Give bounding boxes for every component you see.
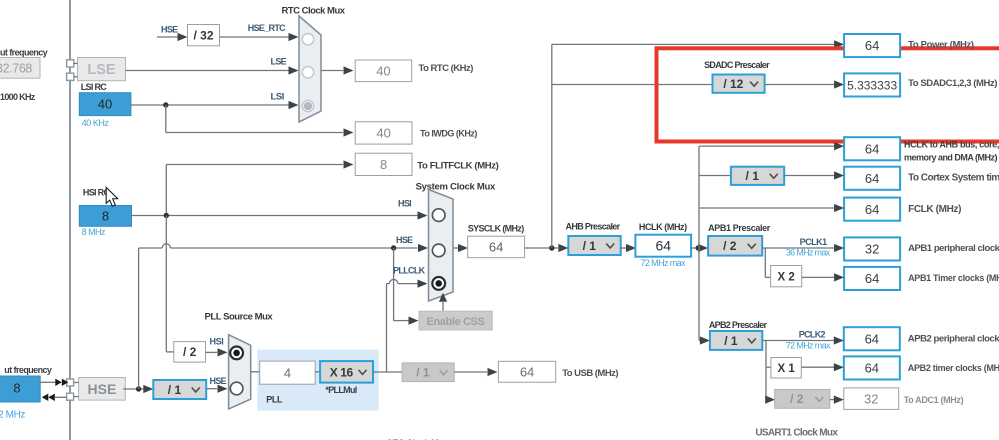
svg-text:To Power (MHz): To Power (MHz) xyxy=(908,40,974,51)
svg-text:PCLK1: PCLK1 xyxy=(800,237,827,247)
svg-text:40: 40 xyxy=(376,126,390,141)
svg-text:72 MHz max: 72 MHz max xyxy=(786,341,831,351)
svg-text:64: 64 xyxy=(865,202,879,217)
svg-text:HSE: HSE xyxy=(396,235,413,245)
svg-text:64: 64 xyxy=(865,171,879,186)
svg-text:PLLCLK: PLLCLK xyxy=(393,266,426,276)
svg-text:PLL: PLL xyxy=(266,394,283,404)
svg-text:32.768: 32.768 xyxy=(0,62,32,76)
svg-text:40 KHz: 40 KHz xyxy=(82,118,110,128)
svg-text:32 MHz: 32 MHz xyxy=(0,410,25,421)
svg-text:/ 2: / 2 xyxy=(723,239,737,253)
svg-text:64: 64 xyxy=(865,361,879,376)
svg-text:1000 KHz: 1000 KHz xyxy=(0,92,36,102)
svg-text:8: 8 xyxy=(380,157,387,172)
svg-text:64: 64 xyxy=(865,271,879,286)
svg-text:RTC Clock Mux: RTC Clock Mux xyxy=(281,6,345,17)
svg-text:64: 64 xyxy=(865,141,879,156)
svg-text:*PLLMul: *PLLMul xyxy=(325,385,356,395)
svg-text:32: 32 xyxy=(864,391,878,406)
svg-text:4: 4 xyxy=(284,365,291,380)
svg-text:HSE: HSE xyxy=(161,25,178,35)
svg-text:APB1 Prescaler: APB1 Prescaler xyxy=(708,223,771,233)
svg-text:36 MHz max: 36 MHz max xyxy=(786,247,831,257)
svg-text:HSI: HSI xyxy=(398,199,411,209)
svg-text:APB2 peripheral clocks (MHz): APB2 peripheral clocks (MHz) xyxy=(908,334,999,345)
svg-text:/ 1: / 1 xyxy=(168,383,182,397)
svg-text:LSE: LSE xyxy=(271,57,287,67)
svg-text:HCLK to AHB bus, core,: HCLK to AHB bus, core, xyxy=(904,139,999,149)
svg-text:SDADC Prescaler: SDADC Prescaler xyxy=(704,60,770,70)
svg-text:APB1 Timer clocks (MHz): APB1 Timer clocks (MHz) xyxy=(908,273,999,283)
svg-text:HSI: HSI xyxy=(210,337,224,347)
svg-text:System Clock Mux: System Clock Mux xyxy=(416,182,496,193)
svg-text:To USB (MHz): To USB (MHz) xyxy=(562,368,618,379)
svg-text:AHB Prescaler: AHB Prescaler xyxy=(566,222,621,232)
svg-text:LSI RC: LSI RC xyxy=(81,82,108,92)
svg-text:SYSCLK (MHz): SYSCLK (MHz) xyxy=(468,223,525,233)
svg-text:Enable CSS: Enable CSS xyxy=(427,316,485,328)
svg-text:40: 40 xyxy=(98,97,112,112)
svg-text:To SDADC1,2,3 (MHz): To SDADC1,2,3 (MHz) xyxy=(908,78,997,89)
svg-text:PLL Source Mux: PLL Source Mux xyxy=(205,312,274,323)
svg-text:X 16: X 16 xyxy=(330,365,354,379)
svg-text:HCLK (MHz): HCLK (MHz) xyxy=(639,222,687,232)
svg-text:To RTC (KHz): To RTC (KHz) xyxy=(419,63,474,74)
svg-text:ut frequency: ut frequency xyxy=(0,47,48,57)
svg-text:8: 8 xyxy=(13,381,20,396)
svg-text:X 1: X 1 xyxy=(777,363,795,375)
svg-text:64: 64 xyxy=(655,238,671,254)
svg-text:To FLITFCLK (MHz): To FLITFCLK (MHz) xyxy=(417,160,498,171)
svg-text:APB1 peripheral clocks (MHz): APB1 peripheral clocks (MHz) xyxy=(908,243,999,254)
svg-text:HSE_RTC: HSE_RTC xyxy=(248,23,286,33)
svg-text:LSE: LSE xyxy=(87,62,116,78)
svg-text:/ 2: / 2 xyxy=(790,392,804,406)
svg-text:8: 8 xyxy=(102,209,109,224)
svg-text:HSE: HSE xyxy=(210,376,227,386)
svg-text:APB2 Prescaler: APB2 Prescaler xyxy=(709,320,768,330)
svg-text:memory and DMA (MHz): memory and DMA (MHz) xyxy=(904,152,997,162)
svg-text:/ 12: / 12 xyxy=(723,77,743,91)
svg-text:USART1 Clock Mux: USART1 Clock Mux xyxy=(755,428,838,439)
svg-text:64: 64 xyxy=(865,38,879,53)
svg-text:/ 1: / 1 xyxy=(746,169,760,183)
svg-text:/ 1: / 1 xyxy=(583,239,597,253)
svg-text:64: 64 xyxy=(520,364,534,379)
svg-text:To ADC1 (MHz): To ADC1 (MHz) xyxy=(904,395,964,405)
svg-text:5.333333: 5.333333 xyxy=(847,78,897,92)
svg-text:64: 64 xyxy=(865,331,879,346)
svg-text:HSE: HSE xyxy=(88,381,117,397)
svg-text:40: 40 xyxy=(376,63,390,78)
svg-text:APB2 timer clocks (MHz): APB2 timer clocks (MHz) xyxy=(908,363,999,373)
svg-text:/ 32: / 32 xyxy=(193,28,213,42)
svg-text:/ 1: / 1 xyxy=(416,366,430,380)
svg-text:72 MHz max: 72 MHz max xyxy=(641,258,687,268)
svg-text:FCLK (MHz): FCLK (MHz) xyxy=(908,204,961,215)
svg-text:ut frequency: ut frequency xyxy=(4,365,52,375)
svg-text:/ 1: / 1 xyxy=(724,334,738,348)
svg-text:X 2: X 2 xyxy=(778,271,795,283)
svg-text:LSI: LSI xyxy=(271,92,285,103)
svg-text:32: 32 xyxy=(865,242,879,257)
svg-text:To Cortex System timer (MHz): To Cortex System timer (MHz) xyxy=(908,173,999,184)
svg-text:/ 2: / 2 xyxy=(183,345,197,359)
svg-text:64: 64 xyxy=(489,240,503,255)
svg-text:To IWDG (KHz): To IWDG (KHz) xyxy=(420,129,477,139)
svg-text:8 MHz: 8 MHz xyxy=(82,227,106,237)
svg-text:PCLK2: PCLK2 xyxy=(799,329,826,339)
